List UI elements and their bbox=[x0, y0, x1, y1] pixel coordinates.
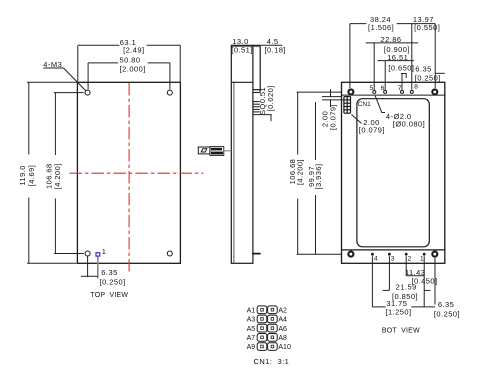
svg-text:A7: A7 bbox=[247, 335, 256, 342]
svg-text:21.59: 21.59 bbox=[396, 283, 417, 292]
svg-text:[4.69]: [4.69] bbox=[27, 165, 36, 186]
svg-text:[2.49]: [2.49] bbox=[123, 45, 144, 54]
svg-text:BOT VIEW: BOT VIEW bbox=[382, 328, 420, 335]
svg-text:A4: A4 bbox=[278, 317, 287, 324]
svg-text:4: 4 bbox=[374, 255, 378, 262]
svg-text:CN1: CN1 bbox=[358, 101, 371, 108]
svg-text:[0.550]: [0.550] bbox=[414, 23, 440, 32]
svg-text:[0.650]: [0.650] bbox=[388, 63, 414, 72]
svg-text:16.51: 16.51 bbox=[387, 53, 408, 62]
svg-text:8: 8 bbox=[414, 84, 418, 91]
svg-text:CN1: 3:1: CN1: 3:1 bbox=[254, 357, 290, 366]
svg-text:[2.000]: [2.000] bbox=[120, 65, 146, 74]
svg-text:[0.079]: [0.079] bbox=[359, 126, 385, 135]
svg-text:[0.250]: [0.250] bbox=[100, 278, 126, 287]
svg-text:5: 5 bbox=[369, 85, 373, 92]
svg-text:22.86: 22.86 bbox=[380, 35, 401, 44]
svg-text:6.35: 6.35 bbox=[101, 268, 117, 277]
svg-text:[0.51]: [0.51] bbox=[231, 45, 252, 54]
svg-text:TOP VIEW: TOP VIEW bbox=[90, 292, 128, 299]
svg-text:4-M3: 4-M3 bbox=[43, 60, 62, 69]
svg-text:[0.250]: [0.250] bbox=[415, 74, 441, 83]
svg-text:[Ø0.080]: [Ø0.080] bbox=[393, 120, 425, 129]
svg-text:3: 3 bbox=[391, 255, 395, 262]
svg-text:A5: A5 bbox=[247, 326, 256, 333]
svg-text:6.35: 6.35 bbox=[415, 64, 431, 73]
svg-text:[0.18]: [0.18] bbox=[265, 45, 286, 54]
svg-text:A6: A6 bbox=[278, 326, 287, 333]
svg-text:A1: A1 bbox=[247, 307, 256, 314]
svg-text:1: 1 bbox=[420, 255, 424, 262]
svg-text:[1.250]: [1.250] bbox=[385, 307, 411, 316]
svg-text:A8: A8 bbox=[278, 335, 287, 342]
svg-text:1: 1 bbox=[102, 247, 107, 256]
svg-text:[3.936]: [3.936] bbox=[314, 163, 323, 189]
svg-text:A10: A10 bbox=[278, 344, 291, 351]
svg-text:A3: A3 bbox=[247, 317, 256, 324]
svg-text:[0.079]: [0.079] bbox=[328, 104, 337, 130]
svg-text:6: 6 bbox=[381, 85, 385, 92]
svg-text:A2: A2 bbox=[278, 307, 287, 314]
svg-text:6.35: 6.35 bbox=[438, 300, 454, 309]
svg-text:[4.200]: [4.200] bbox=[295, 159, 304, 185]
svg-text:119.0: 119.0 bbox=[18, 165, 27, 185]
svg-text:[1.506]: [1.506] bbox=[368, 23, 394, 32]
svg-text:7: 7 bbox=[398, 85, 402, 92]
svg-text:50.80: 50.80 bbox=[119, 55, 140, 64]
svg-text:2: 2 bbox=[408, 255, 412, 262]
svg-text:[0.250]: [0.250] bbox=[434, 309, 460, 318]
svg-text:[4.200]: [4.200] bbox=[53, 163, 62, 189]
svg-text:[0.020]: [0.020] bbox=[266, 85, 275, 111]
svg-text:A9: A9 bbox=[247, 344, 256, 351]
